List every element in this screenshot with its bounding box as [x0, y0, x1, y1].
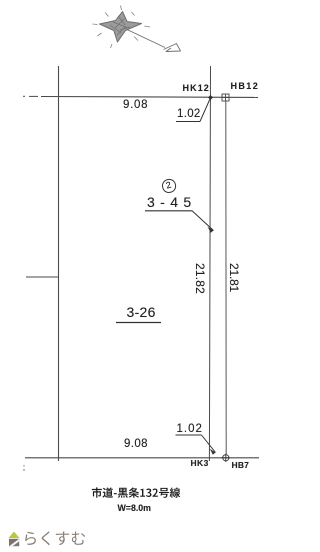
right vertical HB12-HB7 — [225, 101, 227, 455]
leader 3-45 underline — [145, 210, 192, 212]
circled 2 — [160, 178, 177, 195]
marker HB12 square — [222, 94, 229, 101]
label 3-26 — [127, 304, 156, 320]
underline 3-26 — [116, 322, 161, 324]
dim 1.02 bottom — [177, 423, 203, 435]
right vertical HK12-HK3 — [209, 66, 210, 461]
watermark house icon — [9, 532, 20, 547]
dim 9.08 bottom — [124, 438, 148, 450]
dim 9.08 top — [123, 99, 148, 111]
watermark text らくすむ — [25, 531, 85, 545]
dim 21.81 rotated — [227, 263, 241, 292]
top boundary horizontal — [41, 96, 258, 99]
label HK12 — [183, 83, 210, 93]
bottom boundary horizontal — [25, 457, 259, 459]
road name 市道-黒条132号線 — [92, 487, 181, 497]
left boundary vertical — [58, 66, 60, 461]
marker HB7 circle — [222, 454, 231, 462]
leader 3-45 diagonal — [192, 211, 214, 231]
top boundary dash-dot left — [23, 95, 25, 97]
label HB7 — [232, 460, 250, 470]
label HB12 — [231, 81, 260, 91]
left neighbour stub — [26, 276, 58, 278]
dim 21.82 rotated — [193, 263, 207, 294]
road width W=8.0m — [118, 503, 152, 513]
bottom-left continuation dots — [23, 465, 25, 467]
label 3-45 — [147, 194, 197, 210]
node HK12 diamond — [208, 95, 213, 100]
leader 1.02 bottom — [176, 434, 202, 436]
north arrow symbol — [93, 6, 181, 52]
label HK3 — [191, 458, 209, 468]
leader 1.02 top — [176, 121, 200, 123]
dim 1.02 top — [177, 108, 201, 120]
